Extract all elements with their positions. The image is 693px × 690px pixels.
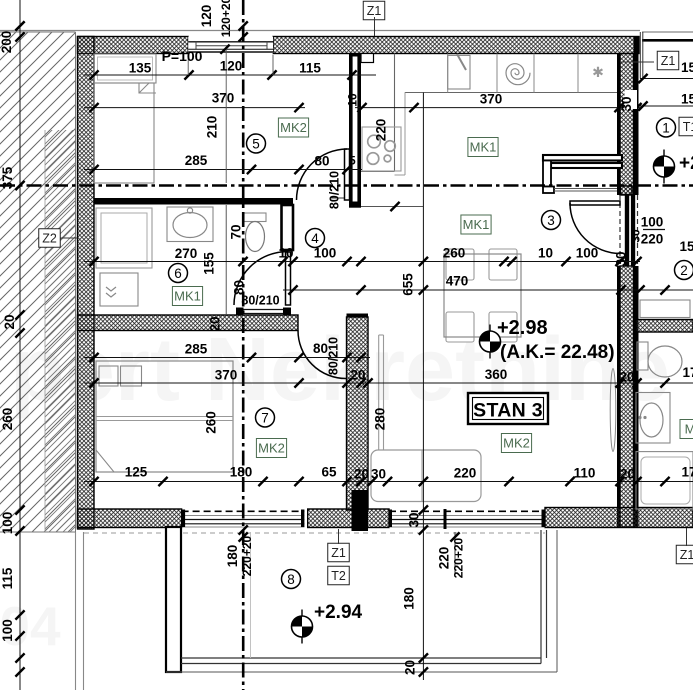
svg-text:(A.K.= 22.48): (A.K.= 22.48) — [500, 342, 615, 363]
svg-text:7: 7 — [261, 411, 269, 426]
svg-text:3: 3 — [547, 213, 555, 228]
svg-text:6: 6 — [174, 266, 182, 281]
svg-text:Z1: Z1 — [661, 54, 676, 68]
svg-text:270: 270 — [175, 246, 198, 261]
svg-text:285: 285 — [185, 153, 208, 168]
svg-text:10: 10 — [278, 246, 293, 261]
svg-text:5: 5 — [252, 137, 260, 152]
svg-text:470: 470 — [446, 274, 469, 289]
svg-text:125: 125 — [125, 465, 148, 480]
svg-text:✱: ✱ — [592, 64, 604, 80]
svg-text:30: 30 — [614, 251, 629, 266]
svg-text:120: 120 — [220, 59, 243, 74]
svg-text:5: 5 — [349, 156, 356, 168]
svg-text:70: 70 — [229, 224, 244, 239]
svg-text:20: 20 — [403, 660, 418, 675]
svg-text:STAN 3: STAN 3 — [473, 400, 543, 422]
svg-text:220: 220 — [454, 466, 477, 481]
svg-text:200: 200 — [0, 31, 14, 54]
svg-text:+2.: +2. — [679, 153, 693, 174]
svg-text:20: 20 — [2, 314, 17, 329]
svg-text:T2: T2 — [331, 569, 346, 583]
svg-text:MK2: MK2 — [503, 436, 530, 451]
svg-text:30: 30 — [629, 229, 643, 243]
svg-text:80/210: 80/210 — [328, 171, 342, 209]
svg-text:220+20: 220+20 — [452, 537, 466, 578]
svg-text:Z2: Z2 — [42, 232, 57, 246]
svg-text:115: 115 — [299, 61, 321, 76]
svg-text:80/210: 80/210 — [241, 294, 279, 308]
svg-text:+2.98: +2.98 — [497, 317, 548, 339]
svg-text:15: 15 — [679, 239, 693, 254]
svg-text:M: M — [685, 422, 693, 437]
svg-text:220+20: 220+20 — [240, 535, 254, 576]
svg-text:110: 110 — [574, 466, 596, 481]
svg-text:100: 100 — [641, 215, 664, 230]
svg-text:180: 180 — [230, 465, 253, 480]
svg-text:20: 20 — [208, 316, 223, 331]
svg-text:17: 17 — [682, 365, 693, 380]
svg-text:MK1: MK1 — [463, 217, 490, 232]
svg-text:15: 15 — [681, 60, 693, 75]
svg-text:MK2: MK2 — [258, 441, 285, 456]
svg-text:120: 120 — [199, 5, 214, 28]
svg-text:T1: T1 — [683, 120, 693, 134]
svg-text:20: 20 — [354, 467, 369, 482]
svg-text:100: 100 — [0, 512, 15, 535]
svg-text:370: 370 — [480, 92, 503, 107]
svg-text:220: 220 — [437, 547, 452, 570]
svg-text:655: 655 — [401, 273, 416, 296]
svg-text:280: 280 — [373, 408, 388, 431]
svg-text:10: 10 — [538, 246, 553, 261]
svg-text:P=100: P=100 — [162, 48, 203, 64]
svg-text:10: 10 — [346, 93, 360, 107]
svg-text:4: 4 — [311, 231, 319, 246]
svg-text:65: 65 — [321, 465, 337, 480]
svg-text:30: 30 — [371, 467, 386, 482]
svg-text:220: 220 — [374, 119, 389, 142]
svg-text:285: 285 — [185, 342, 208, 357]
svg-text:375: 375 — [0, 166, 15, 189]
svg-text:MK2: MK2 — [280, 120, 307, 135]
svg-text:+2.94: +2.94 — [314, 602, 363, 623]
svg-text:80/210: 80/210 — [327, 337, 341, 375]
svg-text:220: 220 — [641, 232, 664, 247]
svg-text:155: 155 — [202, 252, 217, 275]
svg-text:MK1: MK1 — [174, 289, 201, 304]
svg-text:15: 15 — [681, 92, 693, 107]
svg-text:20: 20 — [619, 370, 634, 385]
svg-text:260: 260 — [443, 246, 466, 261]
svg-text:Z1: Z1 — [680, 548, 693, 562]
svg-text:360: 360 — [485, 367, 508, 382]
svg-text:100: 100 — [314, 246, 337, 261]
svg-text:370: 370 — [212, 91, 235, 106]
svg-text:80: 80 — [314, 154, 329, 169]
svg-text:20: 20 — [350, 368, 365, 383]
svg-text:135: 135 — [129, 61, 152, 76]
svg-text:MK1: MK1 — [470, 140, 497, 155]
svg-text:17: 17 — [681, 465, 693, 480]
svg-text:120+20: 120+20 — [219, 0, 233, 37]
svg-text:Z1: Z1 — [367, 4, 382, 18]
svg-text:100: 100 — [576, 246, 599, 261]
svg-text:260: 260 — [204, 411, 219, 434]
svg-text:115: 115 — [0, 567, 15, 589]
svg-text:Z1: Z1 — [331, 546, 346, 560]
svg-text:30: 30 — [407, 512, 422, 527]
svg-text:30: 30 — [619, 96, 634, 111]
svg-text:20: 20 — [620, 467, 635, 482]
svg-text:100: 100 — [0, 619, 15, 642]
svg-text:1: 1 — [662, 121, 670, 136]
svg-text:260: 260 — [0, 408, 15, 431]
svg-text:8: 8 — [287, 572, 295, 587]
svg-text:180: 180 — [402, 587, 417, 610]
svg-text:180: 180 — [225, 545, 240, 568]
svg-text:2: 2 — [680, 263, 688, 278]
svg-text:370: 370 — [215, 368, 238, 383]
svg-text:210: 210 — [205, 116, 220, 139]
